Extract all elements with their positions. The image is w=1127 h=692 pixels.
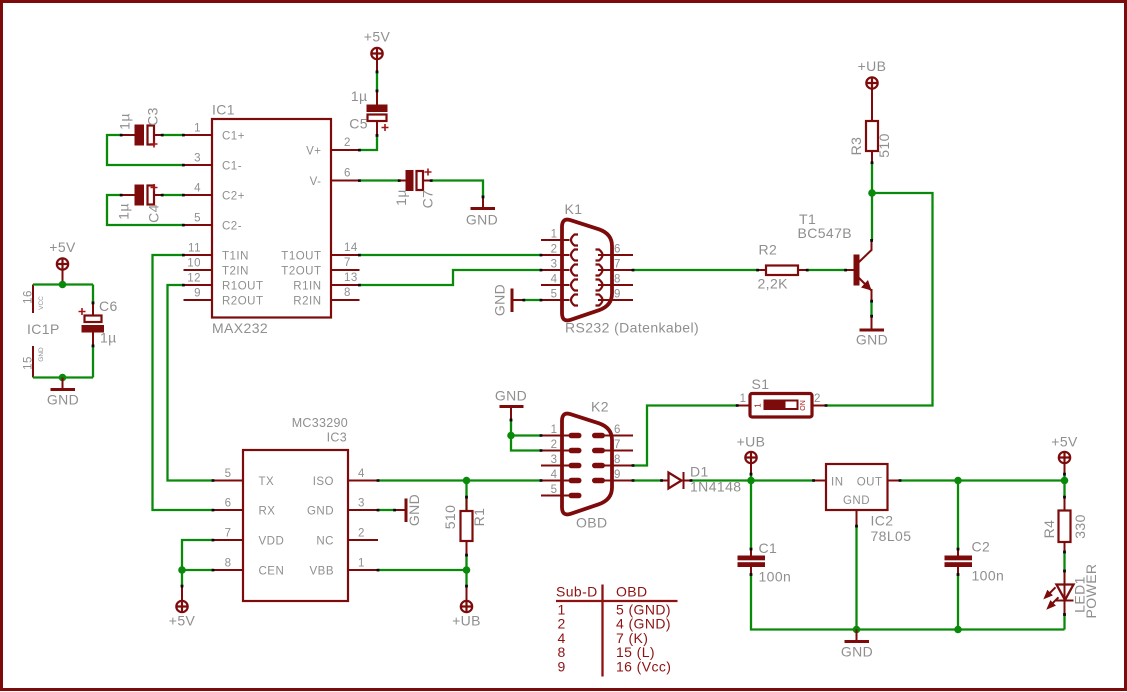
svg-text:C1-: C1- xyxy=(222,161,242,173)
svg-text:CEN: CEN xyxy=(259,566,285,578)
svg-text:R2IN: R2IN xyxy=(293,296,321,308)
svg-text:9: 9 xyxy=(558,659,566,675)
wire +5V to C5 xyxy=(376,72,378,91)
wire junction to S1 pin2 xyxy=(826,193,933,406)
svg-text:8: 8 xyxy=(614,454,621,466)
power symbol IC1P xyxy=(23,285,60,378)
svg-text:BC547B: BC547B xyxy=(798,225,853,241)
ground (IC3 pin3) xyxy=(395,494,423,526)
svg-text:ON: ON xyxy=(800,400,807,411)
svg-text:6: 6 xyxy=(614,244,621,256)
svg-text:IC3: IC3 xyxy=(327,431,347,445)
junction CEN +5V xyxy=(178,566,186,574)
svg-text:2: 2 xyxy=(551,244,558,256)
svg-text:D1: D1 xyxy=(690,464,709,480)
svg-text:+5V: +5V xyxy=(1051,434,1078,450)
svg-text:6: 6 xyxy=(614,424,621,436)
wire IC1P top xyxy=(33,283,93,285)
svg-text:C1: C1 xyxy=(759,540,778,556)
svg-text:14: 14 xyxy=(344,242,358,254)
wire C7 to gnd xyxy=(431,181,483,198)
svg-text:3: 3 xyxy=(194,153,201,165)
svg-text:OBD: OBD xyxy=(616,584,648,600)
pin 13 R1IN xyxy=(331,284,360,286)
svg-text:T1IN: T1IN xyxy=(222,251,249,263)
svg-text:C7: C7 xyxy=(420,190,436,209)
pin 7 T2OUT xyxy=(331,269,360,271)
svg-text:T2IN: T2IN xyxy=(222,266,249,278)
svg-text:VCC: VCC xyxy=(38,296,45,310)
svg-text:2: 2 xyxy=(358,528,365,540)
pin 14 T1OUT xyxy=(331,254,360,256)
svg-text:+UB: +UB xyxy=(858,58,887,74)
resistor R4 xyxy=(1041,497,1088,552)
svg-text:510: 510 xyxy=(876,133,892,158)
svg-text:78L05: 78L05 xyxy=(871,528,912,544)
svg-text:S1: S1 xyxy=(752,376,770,392)
svg-text:OBD: OBD xyxy=(576,515,608,531)
capacitor C6 xyxy=(79,298,118,346)
svg-text:T1OUT: T1OUT xyxy=(281,251,321,263)
pin 11 T1IN xyxy=(184,254,213,256)
wire K2 pin9 to D1 xyxy=(633,479,662,481)
svg-text:4: 4 xyxy=(551,274,558,286)
supply +UB (R3) xyxy=(858,58,887,89)
capacitor C4 xyxy=(116,184,163,223)
wire C2 branch xyxy=(957,481,959,550)
pin 15 GND xyxy=(32,346,34,378)
svg-text:IC2: IC2 xyxy=(871,513,894,529)
svg-text:GND: GND xyxy=(843,495,870,507)
svg-text:6: 6 xyxy=(344,168,351,180)
switch S1 xyxy=(737,376,826,417)
svg-text:4: 4 xyxy=(358,468,365,480)
svg-text:C4: C4 xyxy=(146,204,162,223)
pin 4 ISO xyxy=(348,480,378,482)
pin 16 VCC xyxy=(32,285,34,314)
svg-text:1µ: 1µ xyxy=(393,189,409,206)
pin 3 C1- xyxy=(184,164,213,166)
wire pin6 V- to C7 xyxy=(360,179,400,181)
pin 9 xyxy=(598,299,633,301)
svg-text:TX: TX xyxy=(259,476,275,488)
svg-text:1: 1 xyxy=(551,424,558,436)
svg-text:R1OUT: R1OUT xyxy=(222,281,263,293)
junction +5V right xyxy=(1061,477,1069,485)
svg-text:4: 4 xyxy=(194,183,201,195)
pin 5 TX xyxy=(213,480,243,482)
junction C2 bottom xyxy=(954,626,962,634)
svg-text:VBB: VBB xyxy=(309,566,334,578)
svg-text:3: 3 xyxy=(551,454,558,466)
wire R2 to T1 base xyxy=(807,269,846,271)
svg-text:2,2K: 2,2K xyxy=(758,276,789,292)
pin 8 R2IN xyxy=(331,299,360,301)
svg-text:GND: GND xyxy=(38,347,45,362)
pin 12 R1OUT xyxy=(184,284,213,286)
connector K2 OBD xyxy=(541,399,633,531)
pin 10 T2IN xyxy=(184,269,213,271)
svg-text:R3: R3 xyxy=(848,137,864,156)
svg-text:GND: GND xyxy=(307,506,334,518)
svg-text:R2OUT: R2OUT xyxy=(222,296,263,308)
pin 1 C1+ xyxy=(184,134,213,136)
svg-text:R1: R1 xyxy=(471,508,487,527)
ground (bus) xyxy=(841,630,873,660)
wire D1 to +UB junction xyxy=(691,479,751,481)
pin 7 xyxy=(602,450,633,452)
svg-text:1µ: 1µ xyxy=(116,203,132,220)
pin 7 xyxy=(598,269,633,271)
svg-text:MC33290: MC33290 xyxy=(292,416,348,430)
pin 6 V- xyxy=(331,180,360,182)
svg-text:GND: GND xyxy=(856,332,888,348)
wire LED to bus xyxy=(1063,615,1065,630)
svg-text:2: 2 xyxy=(344,137,351,149)
svg-text:GND: GND xyxy=(406,494,422,526)
ic U1: IC1 MAX232 xyxy=(184,102,360,337)
pin 1 xyxy=(541,435,570,437)
junction IC1P gnd xyxy=(59,374,67,382)
junction collector xyxy=(868,189,876,197)
svg-text:R1IN: R1IN xyxy=(293,281,321,293)
ground (K1 pin5) xyxy=(492,284,524,316)
svg-text:MAX232: MAX232 xyxy=(212,320,268,336)
wire T1 emitter xyxy=(870,301,872,316)
wire T1OUT to K1 pin2 xyxy=(360,254,542,256)
svg-text:7: 7 xyxy=(344,257,351,269)
pin 5 xyxy=(541,299,570,301)
wire T1IN to IC3 RX xyxy=(153,255,214,510)
capacitor C2 xyxy=(945,539,1005,584)
wire +5V stub xyxy=(1063,474,1065,481)
wire R3 to collector junction xyxy=(871,163,873,241)
svg-text:1: 1 xyxy=(551,229,558,241)
pin 2 xyxy=(541,254,570,256)
svg-text:5: 5 xyxy=(551,484,558,496)
diode D1 1N4148 xyxy=(662,464,742,495)
svg-text:100n: 100n xyxy=(759,569,792,585)
pin 2 V+ xyxy=(331,149,360,151)
ground (IC1P) xyxy=(47,378,79,408)
wire to +UB xyxy=(465,570,467,586)
svg-text:C6: C6 xyxy=(99,298,118,314)
svg-text:+UB: +UB xyxy=(737,434,766,450)
wire ISO to K2 pin4 xyxy=(378,479,541,481)
wire K2 gnd to pins 1,2 xyxy=(511,420,541,451)
svg-text:+5V: +5V xyxy=(364,29,391,45)
svg-text:K2: K2 xyxy=(591,399,609,415)
pin 8 xyxy=(602,465,633,467)
svg-text:K1: K1 xyxy=(565,201,583,217)
svg-text:C5: C5 xyxy=(349,116,368,132)
svg-text:1: 1 xyxy=(194,123,201,135)
wire OUT to +5V xyxy=(900,479,1065,481)
resistor R1 xyxy=(442,481,487,556)
svg-text:VDD: VDD xyxy=(259,536,285,548)
svg-text:8: 8 xyxy=(614,274,621,286)
wire gnd to K1 pin5 xyxy=(524,299,542,301)
svg-text:5: 5 xyxy=(225,468,232,480)
svg-text:C2: C2 xyxy=(972,539,991,555)
supply +5V (IC1P) xyxy=(49,239,76,285)
svg-text:R4: R4 xyxy=(1041,520,1057,539)
supply +5V (right) xyxy=(1051,434,1078,475)
svg-text:IC1P: IC1P xyxy=(27,321,60,337)
svg-text:POWER: POWER xyxy=(1083,564,1099,619)
svg-text:12: 12 xyxy=(187,273,201,285)
svg-text:9: 9 xyxy=(614,469,621,481)
svg-text:5: 5 xyxy=(551,289,558,301)
svg-text:16: 16 xyxy=(23,290,35,304)
svg-text:15: 15 xyxy=(23,356,35,370)
wire C3 to pin1 xyxy=(162,134,184,136)
capacitor C7 xyxy=(393,169,436,209)
supply +UB (D1) xyxy=(737,434,766,475)
svg-text:4: 4 xyxy=(551,469,558,481)
svg-text:1: 1 xyxy=(358,558,365,570)
wire IC1P bottom xyxy=(33,376,93,378)
svg-text:+5V: +5V xyxy=(49,239,76,255)
pin 2 xyxy=(541,450,570,452)
junction IC1P +5V xyxy=(59,281,67,289)
wire IC3 gnd xyxy=(378,509,395,511)
junction R1 top xyxy=(463,477,471,485)
LED1 POWER xyxy=(1045,564,1099,619)
table Sub-D / OBD xyxy=(556,584,678,677)
junction VBB xyxy=(463,566,471,574)
svg-text:T2OUT: T2OUT xyxy=(281,266,321,278)
svg-text:C2+: C2+ xyxy=(222,191,245,203)
svg-text:3: 3 xyxy=(551,259,558,271)
svg-text:1µ: 1µ xyxy=(351,88,368,104)
wire S1 pin1 to K2 pin8 xyxy=(633,406,737,466)
svg-text:C1+: C1+ xyxy=(222,131,245,143)
svg-text:+UB: +UB xyxy=(452,613,481,629)
svg-text:7: 7 xyxy=(614,259,621,271)
svg-text:RX: RX xyxy=(259,506,276,518)
svg-text:7: 7 xyxy=(225,528,232,540)
junction bus gnd xyxy=(853,626,861,634)
svg-text:IC1: IC1 xyxy=(212,102,235,118)
pin 5 C2- xyxy=(184,224,213,226)
wire C4 to pin4 xyxy=(162,194,184,196)
svg-text:510: 510 xyxy=(442,505,458,530)
ic U3: IC3 MC33290 xyxy=(213,416,378,601)
wire C6 bottom xyxy=(92,346,94,378)
pin 1 xyxy=(541,239,570,241)
pin 9 R2OUT xyxy=(184,299,213,301)
svg-text:3: 3 xyxy=(358,498,365,510)
pin 2 NC xyxy=(348,539,378,541)
svg-text:GND: GND xyxy=(466,212,498,228)
svg-text:GND: GND xyxy=(492,284,508,316)
svg-text:7: 7 xyxy=(614,439,621,451)
wire C1 to bus xyxy=(751,575,1065,630)
resistor R3 xyxy=(848,90,892,163)
ic U2: IC2 78L05 xyxy=(814,464,912,544)
svg-text:+5V: +5V xyxy=(169,613,196,629)
pin 6 RX xyxy=(213,509,243,511)
pin 8 xyxy=(598,284,633,286)
ground (C7) xyxy=(466,197,498,228)
pin 4 xyxy=(541,284,570,286)
svg-text:1: 1 xyxy=(754,403,763,408)
pin 5 xyxy=(541,495,570,497)
transistor T1 BC547B xyxy=(798,211,873,301)
svg-text:R2: R2 xyxy=(759,242,778,258)
svg-text:330: 330 xyxy=(1072,514,1088,539)
svg-text:NC: NC xyxy=(316,536,334,548)
supply +5V (IC3) xyxy=(169,586,196,629)
svg-text:IN: IN xyxy=(831,477,844,489)
wire K2 gnd to pin1 xyxy=(511,434,541,436)
wire VBB to junction xyxy=(378,569,467,571)
junction +UB node xyxy=(747,477,755,485)
svg-text:9: 9 xyxy=(194,288,201,300)
svg-text:GND: GND xyxy=(495,388,527,404)
svg-text:V+: V+ xyxy=(306,146,321,158)
pin 4 C2+ xyxy=(184,194,213,196)
pin 6 xyxy=(602,435,633,437)
svg-text:9: 9 xyxy=(614,289,621,301)
wire junction ticks xyxy=(92,71,1066,616)
svg-text:RS232 (Datenkabel): RS232 (Datenkabel) xyxy=(565,320,699,336)
pin 9 xyxy=(602,480,633,482)
svg-text:GND: GND xyxy=(47,392,79,408)
svg-text:2: 2 xyxy=(551,439,558,451)
connector K1 RS232 xyxy=(541,201,699,336)
ground (K2) xyxy=(495,388,527,421)
capacitor C1 xyxy=(738,540,792,585)
svg-text:ISO: ISO xyxy=(313,476,334,488)
svg-text:1: 1 xyxy=(740,393,747,405)
svg-text:8: 8 xyxy=(344,287,351,299)
pin 3 xyxy=(541,269,570,271)
wire VDD/CEN tie xyxy=(182,540,213,570)
wire C5 to pin2 V+ xyxy=(360,135,378,150)
svg-text:Sub-D: Sub-D xyxy=(556,584,598,600)
wire C1 branch xyxy=(750,481,752,550)
svg-text:11: 11 xyxy=(188,243,201,255)
pin 6 xyxy=(598,254,633,256)
pin 3 GND xyxy=(348,509,378,511)
svg-text:1µ: 1µ xyxy=(100,330,117,346)
supply +UB (IC3) xyxy=(452,586,481,629)
svg-text:5: 5 xyxy=(194,213,201,225)
capacitor C5 xyxy=(349,88,388,135)
junction C2 top xyxy=(954,477,962,485)
svg-text:2: 2 xyxy=(814,393,821,405)
pin 3 xyxy=(541,465,570,467)
svg-text:GND: GND xyxy=(841,644,873,660)
wire +UB stub xyxy=(750,474,752,481)
supply +5V (top) xyxy=(364,29,391,73)
wire IC2 gnd down xyxy=(855,526,857,630)
wire C3 to pin3 xyxy=(107,135,184,165)
wire C2 to bus xyxy=(957,575,959,630)
capacitor C3 xyxy=(117,107,163,147)
svg-text:OUT: OUT xyxy=(857,477,883,489)
wire R1OUT to IC3 TX xyxy=(168,285,214,481)
wire R1 bottom to VBB xyxy=(465,555,467,570)
wire R4 to LED xyxy=(1063,552,1065,571)
svg-text:C2-: C2- xyxy=(222,221,242,233)
svg-text:8: 8 xyxy=(225,558,232,570)
junction K2 gnd xyxy=(507,432,515,440)
svg-text:16 (Vcc): 16 (Vcc) xyxy=(616,659,671,675)
wire to +5V xyxy=(181,570,183,586)
pin 1 VBB xyxy=(348,569,378,571)
svg-text:13: 13 xyxy=(344,272,358,284)
svg-text:6: 6 xyxy=(225,498,232,510)
pin 8 CEN xyxy=(213,569,243,571)
wire to C6 xyxy=(92,285,94,304)
wire to R4 xyxy=(1063,481,1065,498)
svg-text:1µ: 1µ xyxy=(117,113,133,130)
svg-text:100n: 100n xyxy=(972,568,1005,584)
resistor R2 xyxy=(758,242,808,292)
pin 4 xyxy=(541,480,570,482)
wire C4 to pin5 xyxy=(107,195,184,225)
wire K1 pin7 to R2 xyxy=(633,269,758,271)
wire junction to IC2 IN xyxy=(751,479,814,481)
svg-text:10: 10 xyxy=(187,258,201,270)
ground (T1) xyxy=(856,316,888,348)
wire R1IN to K1 pin3 xyxy=(360,270,542,285)
pin 7 VDD xyxy=(213,539,243,541)
svg-text:C3: C3 xyxy=(145,107,161,126)
svg-text:V-: V- xyxy=(310,176,322,188)
